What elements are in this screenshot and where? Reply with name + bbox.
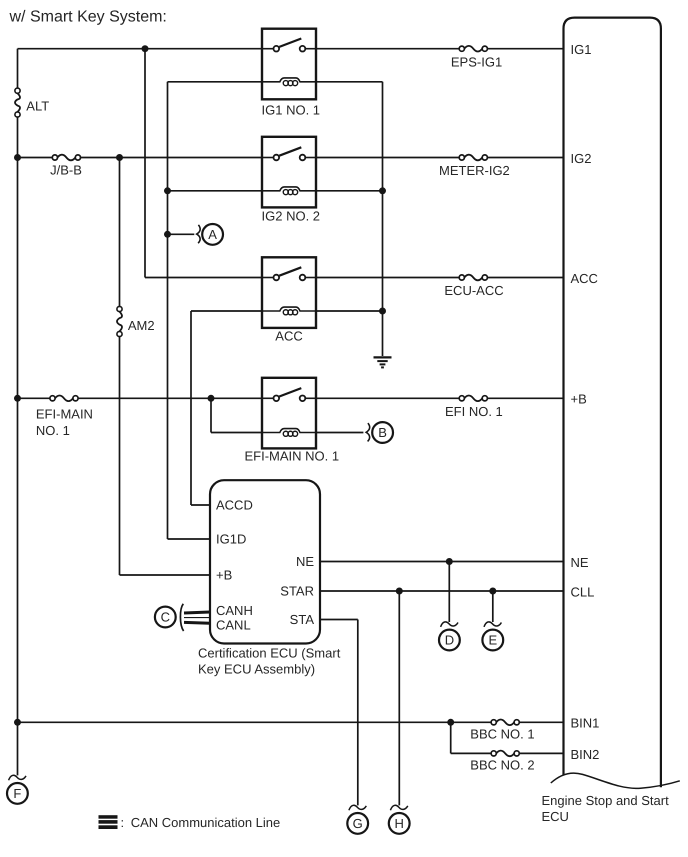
connector G break wave	[349, 805, 366, 810]
wire: J/B-B fuse to IG2 relay switch	[81, 157, 263, 159]
svg-text:E: E	[488, 633, 497, 648]
relay IG1 NO. 1 coil	[262, 78, 316, 86]
svg-text:IG2: IG2	[571, 151, 592, 166]
junction: EFI-MAIN line / coil branch	[208, 395, 215, 402]
svg-text:BBC NO. 2: BBC NO. 2	[470, 757, 534, 772]
fuse EPS-IG1	[459, 46, 487, 52]
svg-text:EPS-IG1: EPS-IG1	[451, 54, 502, 69]
wire: BBC NO. 2 fuse to BIN2 pin	[519, 752, 563, 754]
fuse ECU-ACC	[459, 275, 487, 281]
svg-text:IG1 NO. 1: IG1 NO. 1	[262, 102, 321, 117]
svg-text:H: H	[395, 816, 404, 831]
wire: AM2 vertical lower	[119, 337, 121, 575]
junction: IG1D line / IG2 coil	[164, 187, 171, 194]
fuse EFI NO. 1	[459, 396, 487, 402]
svg-text:NE: NE	[296, 554, 314, 569]
connector D	[439, 630, 460, 651]
svg-text:STA: STA	[290, 612, 315, 627]
fusible link AM2	[117, 306, 122, 336]
wire: STA line	[320, 619, 358, 621]
svg-text:IG1: IG1	[571, 42, 592, 57]
fuse EFI-MAIN NO. 1	[50, 396, 78, 402]
wire: BIN2 line	[451, 752, 492, 754]
relay IG1 NO. 1 switch contact	[262, 39, 316, 52]
connector E	[482, 630, 503, 651]
wire: IG2 relay coil input	[168, 190, 263, 192]
svg-text:D: D	[445, 633, 454, 648]
wire: ACCD vertical	[190, 311, 192, 505]
wire: EFI-MAIN line left	[18, 397, 50, 399]
wire: left main vertical (ALT to F)	[17, 117, 19, 775]
svg-text:ALT: ALT	[26, 99, 49, 114]
wire: battery feed top horizontal	[18, 48, 263, 50]
connector F	[7, 783, 28, 804]
wire: coil ground vertical	[382, 82, 384, 356]
wire: EFI-MAIN relay coil output to connector B	[316, 432, 363, 434]
svg-text:w/ Smart Key System:: w/ Smart Key System:	[9, 9, 167, 26]
connector F break wave	[9, 775, 26, 780]
wire: IG1D vertical (coil feed line)	[167, 82, 169, 539]
svg-text:EFI NO. 1: EFI NO. 1	[445, 404, 503, 419]
junction: left vertical / BIN1 feed	[14, 719, 21, 726]
svg-text:CANH: CANH	[216, 603, 253, 618]
svg-text:EFI-MAIN: EFI-MAIN	[36, 407, 93, 422]
junction: NE line / D branch	[446, 558, 453, 565]
wire: STAR to CLL line	[320, 590, 564, 592]
wire: IG1 relay to EPS-IG1 fuse	[316, 48, 459, 50]
svg-text:BBC NO. 1: BBC NO. 1	[470, 727, 534, 742]
svg-text:CANL: CANL	[216, 618, 251, 633]
wire: branch down to EFI-MAIN relay coil	[210, 398, 212, 432]
junction: top feed / ACC branch	[142, 45, 149, 52]
junction: IG1D line / connector A stub	[164, 231, 171, 238]
connector H break wave	[390, 805, 407, 810]
wire: NE line	[320, 561, 564, 563]
svg-text:B: B	[378, 425, 387, 440]
fuse METER-IG2	[459, 155, 487, 161]
wire: EFI NO. 1 fuse to +B pin	[487, 397, 563, 399]
svg-text:STAR: STAR	[280, 584, 314, 599]
svg-text:CAN Communication Line: CAN Communication Line	[131, 815, 281, 830]
svg-text:BIN2: BIN2	[571, 747, 600, 762]
relay IG2 NO. 2 box	[262, 137, 316, 208]
ECU: Certification ECU (Smart Key ECU Assembly) outline	[210, 480, 320, 643]
junction: CLL line / H branch	[396, 588, 403, 595]
svg-text:ECU: ECU	[542, 809, 569, 824]
wire: left main vertical upper (to ALT)	[17, 49, 19, 88]
connector C	[155, 607, 176, 628]
connector B brace	[366, 423, 369, 441]
svg-text:EFI-MAIN NO. 1: EFI-MAIN NO. 1	[245, 449, 340, 464]
svg-text:IG1D: IG1D	[216, 532, 246, 547]
relay IG2 NO. 2 coil	[262, 187, 316, 195]
svg-text:G: G	[353, 816, 363, 831]
wire: CLL branch down to E	[492, 591, 494, 622]
fuse BBC NO. 2	[491, 751, 519, 757]
junction: left vertical / EFI-MAIN line	[14, 395, 21, 402]
connector C arc	[180, 604, 183, 631]
svg-text:CLL: CLL	[571, 584, 595, 599]
relay IG1 NO. 1 box	[262, 29, 316, 100]
svg-text:Key ECU Assembly): Key ECU Assembly)	[198, 661, 315, 676]
svg-text:IG2 NO. 2: IG2 NO. 2	[262, 208, 321, 223]
wire: IG1 relay coil input	[168, 81, 263, 83]
relay ACC box	[262, 257, 316, 328]
svg-text:METER-IG2: METER-IG2	[439, 163, 510, 178]
wire: ACC relay switch input	[145, 277, 262, 279]
wire: into IG1D pin	[168, 538, 211, 540]
wire: BBC NO. 1 fuse to BIN1 pin	[519, 721, 563, 723]
connector A brace	[197, 225, 200, 243]
wire: EFI-MAIN relay to EFI NO. 1 fuse	[316, 397, 459, 399]
svg-text:F: F	[13, 786, 21, 801]
wire: ECU-ACC fuse to ACC pin	[487, 277, 563, 279]
ground symbol	[374, 357, 392, 367]
wire: ACC relay coil input	[191, 310, 262, 312]
wire: AM2 vertical upper	[119, 158, 121, 307]
svg-text:C: C	[161, 610, 170, 625]
wire: CLL branch down to H	[398, 591, 400, 805]
wire: EFI-MAIN relay coil input	[211, 432, 262, 434]
wire: into ACCD pin	[191, 504, 210, 506]
relay EFI-MAIN NO. 1 switch contact	[262, 388, 316, 401]
svg-text:A: A	[208, 227, 217, 242]
relay ACC switch contact	[262, 267, 316, 280]
svg-text:BIN1: BIN1	[571, 716, 600, 731]
svg-text:ECU-ACC: ECU-ACC	[444, 283, 503, 298]
wire: branch down to BIN2	[450, 722, 452, 753]
wire: IG2 relay to METER-IG2 fuse	[316, 157, 459, 159]
ECU: Engine Stop and Start ECU outline	[564, 18, 661, 788]
connector H	[389, 813, 410, 834]
wire: BIN1 feed line	[18, 721, 492, 723]
svg-text::: :	[121, 815, 125, 830]
svg-text:+B: +B	[216, 568, 232, 583]
svg-text:ACC: ACC	[275, 329, 302, 344]
junction: CLL line / E branch	[489, 588, 496, 595]
wire: ACC relay to ECU-ACC fuse	[316, 277, 459, 279]
relay EFI-MAIN NO. 1 coil	[262, 429, 316, 437]
connector G	[347, 813, 368, 834]
relay ACC coil	[262, 307, 316, 315]
wire: EPS-IG1 fuse to IG1 pin	[487, 48, 563, 50]
svg-text:ACCD: ACCD	[216, 498, 253, 513]
svg-text:Certification ECU (Smart: Certification ECU (Smart	[198, 646, 341, 661]
svg-text:ACC: ACC	[571, 271, 598, 286]
svg-text:J/B-B: J/B-B	[50, 163, 82, 178]
wire: METER-IG2 fuse to IG2 pin	[487, 157, 563, 159]
junction: J/B-B line / AM2 vertical	[116, 154, 123, 161]
fuse J/B-B	[52, 155, 80, 161]
relay EFI-MAIN NO. 1 box	[262, 378, 316, 449]
CAN bus lines (CANH/CANL)	[184, 612, 210, 623]
junction: ground line / ACC coil	[379, 308, 386, 315]
wire: IG1 relay coil output	[316, 81, 383, 83]
wire: STA vertical down to G	[357, 620, 359, 806]
connector E break wave	[484, 622, 501, 627]
ECU bottom wavy break	[551, 773, 680, 788]
wire: IG2 relay coil output	[316, 190, 383, 192]
svg-text:+B: +B	[571, 392, 587, 407]
svg-text:NO. 1: NO. 1	[36, 423, 70, 438]
svg-text:AM2: AM2	[128, 318, 155, 333]
fusible link ALT	[15, 88, 20, 117]
svg-text:NE: NE	[571, 555, 589, 570]
connector A	[202, 224, 223, 245]
junction: BIN1 feed / BIN2 branch	[447, 719, 454, 726]
legend: CAN communication line symbol	[99, 815, 118, 829]
wire: J/B-B line left	[18, 157, 53, 159]
wire: vertical branch to ACC relay switch	[144, 49, 146, 278]
wire: ACC relay coil output	[316, 310, 383, 312]
wire: into +B pin of cert ECU	[120, 574, 211, 576]
svg-text:Engine Stop and Start: Engine Stop and Start	[542, 793, 670, 808]
junction: left vertical / J/B-B line	[14, 154, 21, 161]
junction: ground line / IG2 coil	[379, 187, 386, 194]
connector B	[372, 422, 393, 443]
wire: EFI-MAIN fuse to EFI-MAIN relay switch	[78, 397, 262, 399]
relay IG2 NO. 2 switch contact	[262, 147, 316, 160]
wire: NE branch down to D	[448, 562, 450, 623]
connector D break wave	[441, 622, 458, 627]
wire: stub to connector A	[168, 233, 195, 235]
fuse BBC NO. 1	[491, 720, 519, 726]
